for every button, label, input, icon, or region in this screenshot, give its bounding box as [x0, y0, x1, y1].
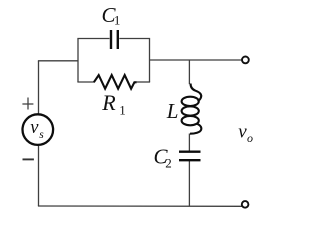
wire: C2 bottom to bottom rail: [188, 161, 190, 206]
resistor R1: [94, 75, 137, 89]
wire: bottom rail: [38, 205, 242, 207]
svg-text:v: v: [30, 118, 39, 138]
voltage source vs: [23, 114, 54, 145]
svg-text:L: L: [166, 99, 179, 123]
plus sign of source: [22, 98, 33, 110]
wire: mid horizontal from box to top-right terminal: [150, 59, 243, 61]
svg-text:1: 1: [119, 103, 126, 118]
wire: box bottom edge left of R1: [77, 81, 94, 83]
capacitor C1: [111, 30, 118, 49]
wire: box top edge left of C1: [77, 38, 109, 40]
terminal bottom-right: [242, 201, 249, 208]
wire: box right edge: [149, 39, 151, 83]
wire: box top edge right of C1: [119, 38, 150, 40]
minus sign of source: [23, 158, 34, 160]
wire: box left edge: [77, 39, 79, 83]
capacitor C2: [179, 152, 201, 161]
svg-text:1: 1: [114, 13, 121, 28]
svg-text:R: R: [101, 90, 116, 115]
terminal top-right: [242, 57, 249, 64]
wire: left vertical from top corner to source top: [38, 61, 40, 115]
svg-text:o: o: [247, 131, 253, 145]
svg-text:v: v: [238, 122, 247, 143]
inductor L: [182, 84, 202, 134]
wire: right branch junction down to inductor: [188, 60, 190, 84]
svg-text:2: 2: [165, 155, 172, 170]
svg-text:s: s: [39, 129, 44, 141]
wire: left vertical from source bottom to bottom rail: [38, 145, 40, 207]
wire: mid horizontal from source branch to parallel box: [38, 60, 78, 62]
wire: box bottom edge right of R1: [136, 81, 151, 83]
wire: inductor bottom to C2: [188, 134, 190, 151]
